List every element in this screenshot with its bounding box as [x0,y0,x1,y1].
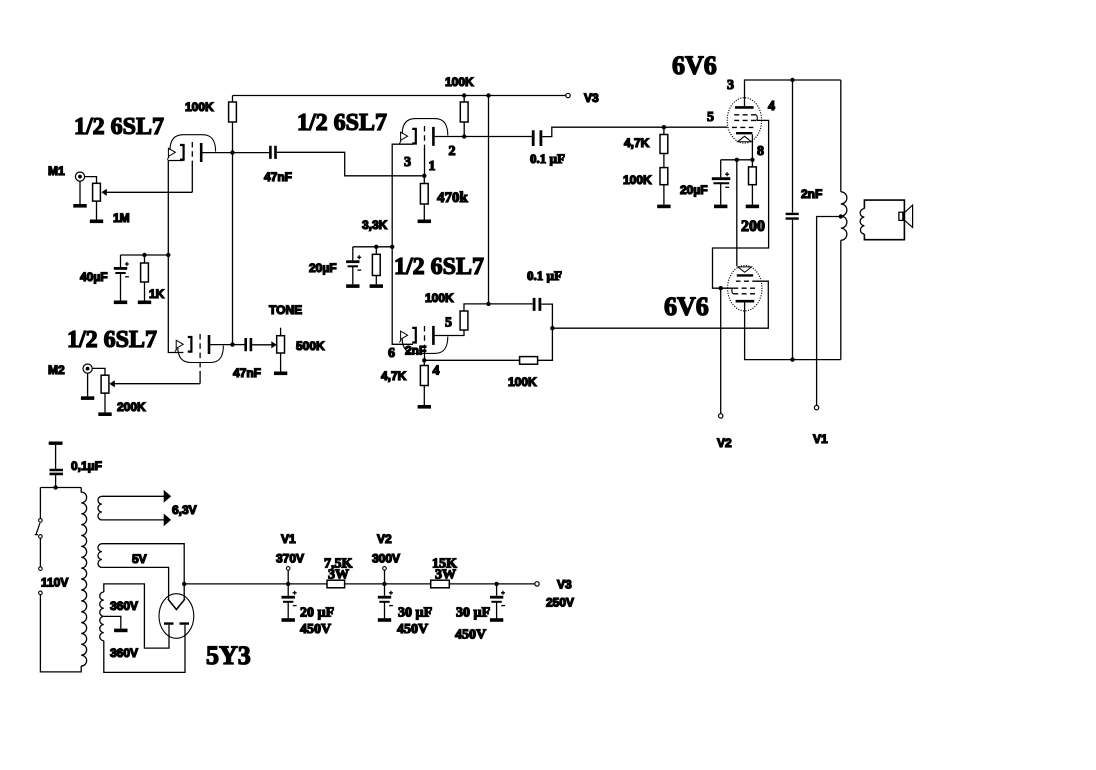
resistor 1K [141,263,149,282]
wire filament right arm [183,584,185,600]
svg-text:1/2 6SL7: 1/2 6SL7 [67,327,157,353]
svg-text:47nF: 47nF [264,170,292,184]
node 100K plate load V2a top [462,93,466,97]
wire 100K bottom / plate bus [232,122,234,345]
wire V2a plate lead [435,136,465,138]
node V1b plate [230,342,234,346]
wire 4,7K top lead [423,360,425,365]
wire 0,1uF bottom stem [55,475,57,487]
svg-text:450V: 450V [455,628,486,643]
wire V2 rail down [720,288,722,414]
resistor 4,7K (divider) [420,366,428,386]
grid line V1a [191,142,193,166]
svg-text:20µF: 20µF [680,183,708,197]
switch contact upper [39,519,43,523]
ground (M2 jack) [81,397,94,399]
wire 1K top lead [144,255,146,263]
resistor 200 cathode [749,167,757,185]
resistor 100K grid leak (upper 6V6) [660,168,668,185]
svg-text:V1: V1 [813,432,828,446]
ground (100K grid leak) [657,205,670,207]
svg-text:4,7K: 4,7K [381,369,407,383]
wire V1b plate lead [210,344,233,346]
node 2nF tap [790,78,794,82]
potentiometer 500K tone [277,336,285,353]
terminal 110V lower [39,591,43,595]
capacitor 2nF line top [792,80,794,213]
svg-text:1: 1 [429,159,436,174]
node rail to dropper line [486,93,490,97]
wire switch to plug [39,538,41,567]
capacitor 2nF line bottom [792,220,794,360]
wire 20uF top lead [352,247,354,260]
svg-text:5V: 5V [132,552,147,566]
wire 6V6 upper cathode lead [751,135,753,160]
wire switch feed [39,488,41,519]
wire V1a cathode hook [168,161,183,256]
wire 1M to ground [96,201,98,219]
node cathode bus / lower 6V6 [735,158,739,162]
wire V2b cathode hook [392,247,413,344]
wire V1b grid to 200K wiper [113,383,201,385]
resistor 3,3K [372,254,380,275]
pentode 6V6 upper [727,98,761,143]
wire 40uF top lead [120,255,122,267]
node rectifier output [182,582,186,586]
terminal 110V upper [39,567,43,571]
wire 40uF bottom lead [120,273,122,301]
wire 3,3K bottom lead [375,276,377,285]
svg-text:3: 3 [404,155,411,170]
svg-text:6: 6 [388,346,395,361]
wire M1 jack ground lead [79,181,81,204]
tube 5Y3 plates [164,622,189,624]
wire V1b cathode hook [168,255,183,353]
wire lower 6V6 cathode to bus [736,160,738,266]
transformer OT primary line [840,80,842,192]
capacitor 0,1uF line cap top bar [49,442,63,445]
wire V1a plate lead [202,152,233,154]
terminal V2 (open circle) [719,414,723,418]
svg-text:1/2 6SL7: 1/2 6SL7 [297,110,387,136]
capacitor 0.1uF (lower coupling) [534,298,540,311]
tube 5Y3 envelope [159,594,194,639]
svg-text:6V6: 6V6 [664,292,709,321]
arrow 6,3V bottom [164,514,171,527]
node cathode/1K junction [166,253,170,257]
wire 6,3V bottom lead [102,519,164,521]
switch contact lower [39,535,43,539]
input jack M1 [75,172,84,181]
svg-text:200K: 200K [117,400,146,414]
inductor OT primary winding [841,192,847,240]
node 30uF-2 rail [494,582,498,586]
svg-text:450V: 450V [397,622,428,637]
svg-text:40µF: 40µF [80,270,108,284]
svg-text:TONE: TONE [269,303,302,317]
wire V1 stub [287,570,289,584]
wire center tap to V1 [817,217,841,406]
resistor 4,7K grid stopper [660,135,668,154]
resistor 100K (V2b plate load) [460,311,468,330]
wire cathode bus [721,159,753,161]
grid line V2a [424,126,426,150]
node V1 rail [286,582,290,586]
svg-text:3W: 3W [328,568,349,583]
wire M1 jack to pot [85,177,97,184]
arrow 6,3V top [164,490,171,503]
ground (40uF) [114,301,127,303]
svg-text:450V: 450V [300,622,331,637]
pentode 6V6 lower (rotated) [728,266,762,311]
wire 5V bottom lead [102,567,169,599]
transformer 5V winding [98,544,102,568]
node cathode junction right [750,158,754,162]
svg-text:6,3V: 6,3V [172,503,197,517]
wire HV center tap [104,616,121,628]
grid line V1b [199,334,201,372]
wire 30uF-2 bottom lead [496,602,498,618]
triode V2b 1/2 6SL7 (phase inverter, dome below) [399,326,447,354]
capacitor 47nF (tone coupling) [246,338,251,351]
wire mains bottom [40,595,81,672]
svg-text:1M: 1M [113,211,130,225]
ground (30uF-2) [490,619,503,621]
svg-text:2nF: 2nF [405,344,426,358]
svg-text:500K: 500K [296,339,325,353]
grid line V2b [424,326,426,352]
svg-text:1/2 6SL7: 1/2 6SL7 [74,114,164,140]
wire HV top to left plate [104,584,169,648]
svg-text:V3: V3 [557,578,572,592]
capacitor 30uF 450V (2) [490,591,505,606]
svg-text:M1: M1 [48,164,65,178]
svg-text:5Y3: 5Y3 [206,641,251,670]
wire M2 jack to pot [92,368,105,375]
ground (500K) [274,372,287,374]
svg-text:0.1 µF: 0.1 µF [527,268,562,283]
wire 30uF-1 bottom lead [384,602,386,618]
wire 470k top lead [423,176,425,184]
wire 20uF top lead [720,160,722,178]
ground (20uF) [346,285,359,287]
wire 47nF to tone pot [252,344,272,346]
wire cathode node to 20uF [353,246,392,248]
speaker driver [899,212,905,220]
terminal V3 (open circle) [566,93,570,97]
node V2a grid / 470k [422,174,426,178]
svg-text:2: 2 [449,144,456,159]
ground (1K) [138,301,151,303]
wire 5V top lead to B+ node [102,544,184,584]
wire 100K top to 0.1uF lower [464,304,533,311]
wire 6V6 screen (pin 4) path [713,120,769,288]
capacitor 2nF [786,214,799,219]
wire 200K to ground [104,393,106,412]
ground (M1 jack) [73,205,86,207]
svg-text:V2: V2 [377,532,392,546]
ground (3,3K) [370,285,383,287]
wire 30uF-2 top lead [496,584,498,596]
capacitor 20uF (6V6 cathode) [712,177,731,180]
tube 5Y3 filament [168,599,185,610]
capacitor 40uF electrolytic [114,262,129,277]
svg-text:30 µF: 30 µF [456,606,490,621]
wire V1a grid to 1M wiper [105,191,193,193]
wire junction to 6V6 grid (lower) [552,281,768,328]
wire V3 rail top [233,95,566,97]
node V2b grid divider [422,358,426,362]
svg-text:V1: V1 [281,532,296,546]
triode V1a 1/2 6SL7 [167,135,215,162]
wire 4,7K top lead [663,127,665,134]
svg-text:300V: 300V [372,552,400,566]
wire plate to 0.1uF [464,136,532,138]
wire 30uF-1 top lead [384,584,386,596]
potentiometer 200K [101,375,109,393]
wire 20uF psu bottom lead [287,602,289,618]
switch blade [35,523,40,535]
svg-text:470k: 470k [437,190,469,206]
terminal V3 psu [535,582,539,586]
wire lower 6V6 plate lead [745,301,841,359]
ground (200K) [98,413,111,415]
transformer primary winding [81,488,86,667]
node 1K top [142,253,146,257]
node 2nF bottom [790,357,794,361]
wire HV bottom to right plate [104,625,185,673]
wire V2 stub [384,570,386,584]
capacitor 30uF 450V (1) [378,591,393,606]
resistor 470k grid leak [420,184,428,205]
wire tone pot top stub [280,328,282,336]
resistor 100K plate load V1a [229,102,237,122]
svg-text:100K: 100K [623,173,652,187]
resistor 100K plate load V2a [460,102,468,122]
triode V2a 1/2 6SL7 [399,119,447,146]
svg-text:360V: 360V [110,646,138,660]
wire mains top [40,487,81,489]
svg-text:0.1 µF: 0.1 µF [530,151,565,166]
svg-text:100K: 100K [445,75,474,89]
node 3,3K resistor top [374,245,378,249]
svg-text:250V: 250V [546,596,574,610]
svg-text:30 µF: 30 µF [398,606,432,621]
capacitor 20uF 450V [282,591,297,606]
wire 6V6 plate (pin 3) to OT [745,80,841,107]
svg-text:110V: 110V [41,576,68,590]
ground (20uF psu) [282,619,295,621]
wire 1K bottom lead [144,282,146,301]
svg-text:20µF: 20µF [309,261,337,275]
node V1a plate [230,150,234,154]
speaker horn [905,205,913,227]
svg-text:5: 5 [707,110,714,125]
wire 20uF bottom lead [720,183,722,204]
svg-text:2nF: 2nF [801,187,822,201]
svg-text:V3: V3 [584,91,599,105]
wire 4,7K bottom lead [423,386,425,406]
wire cathode node to 40uF [121,254,169,256]
svg-text:6V6: 6V6 [672,51,717,80]
resistor 15K 3W [431,580,450,588]
terminal V1 (open circle) [814,405,818,409]
wire lower 6V6 grid connector [756,280,759,282]
speaker box [864,200,904,240]
capacitor 20uF cathode bypass [346,255,361,270]
node screen / V2 rail [719,286,723,290]
node V2a plate [462,134,466,138]
ground (470k) [418,220,431,222]
svg-text:370V: 370V [276,552,304,566]
svg-text:47nF: 47nF [233,366,261,380]
svg-text:360V: 360V [110,599,138,613]
svg-text:0,1µF: 0,1µF [71,459,102,473]
svg-text:3W: 3W [435,568,456,583]
wire 6,3V top lead [102,495,164,497]
svg-text:4: 4 [433,364,440,379]
wire tone pot to ground [280,353,282,372]
node OT center tap [839,214,843,218]
resistor 7,5K 3W [327,580,345,588]
svg-text:20 µF: 20 µF [300,606,334,621]
wire 47nF to V1b grid node [277,152,425,176]
wiper arrow 1M [101,189,106,196]
wire B+ rail [184,583,535,585]
wiper arrow TONE [271,341,276,348]
wire plate node to 47nF (ch2) [233,344,245,346]
svg-text:5: 5 [445,316,452,331]
svg-text:1K: 1K [149,287,165,301]
wire 20uF bottom lead [352,266,354,284]
capacitor 0.1uF (upper coupling) [533,130,541,146]
input jack M2 [83,364,92,373]
wire V2b plate lead [433,330,464,336]
svg-text:3,3K: 3,3K [362,218,388,232]
node lower coupling junction [550,326,554,330]
svg-text:8: 8 [757,144,764,159]
triode V1b 1/2 6SL7 (second input, dome below) [175,335,223,363]
wire OT primary bottom [840,240,842,359]
wire M2 jack ground lead [87,373,89,396]
ground (4,7K divider) [418,406,431,408]
svg-text:V2: V2 [717,436,732,450]
svg-text:M2: M2 [48,363,65,377]
svg-text:100K: 100K [508,375,537,389]
wire 0.1uF to 4,7K node [542,127,727,136]
ground (1M) [90,220,103,222]
wire 4,7K to 100K [663,154,665,168]
wire 3,3K top lead [375,247,377,255]
svg-text:100K: 100K [425,291,454,305]
wire junction down to 100K feedback [538,328,553,360]
svg-text:3: 3 [727,78,734,93]
svg-text:200: 200 [741,218,765,235]
ground (20uF 6V6) [714,205,727,207]
wire 0,1uF top stem [55,445,57,469]
svg-text:1/2 6SL7: 1/2 6SL7 [394,254,484,280]
wire 470k bottom lead [423,204,425,220]
wire 100K feedback to grid node [424,359,519,361]
wire V2a cathode hook [392,144,413,247]
wire 100K V2a top lead [463,96,465,103]
ground (HV center tap) [114,629,127,631]
svg-text:4,7K: 4,7K [624,136,650,150]
capacitor 47nF (ch1 coupling) [270,146,275,159]
transformer 6,3V winding [98,496,102,520]
node mains top [53,485,57,489]
resistor 100K feedback (horizontal) [520,357,538,365]
node V2 rail [382,582,386,586]
ground (30uF-1) [378,619,391,621]
capacitor 0,1uF [50,470,64,474]
node 4,7K / grid wire [662,125,666,129]
transformer HV winding 360V+360V [100,592,104,641]
wiper arrow 200K [109,380,114,387]
wire 100K bottom lead [663,185,665,205]
terminal V2 psu [383,567,387,571]
wire 0.1uF lower to junction [541,304,552,328]
svg-text:4: 4 [768,99,775,114]
node dropper joins plate wire [486,302,490,306]
inductor OT secondary winding [860,209,864,235]
wire 200 bottom lead [751,185,753,205]
wire 20uF psu top lead [287,584,289,596]
node 3.3K top [390,245,394,249]
wire dropper vertical (V3 to lower stage) [488,96,490,304]
wire 200 top lead [751,160,753,167]
wire 100K top to V3 rail [232,96,234,103]
potentiometer 1M [93,183,101,201]
terminal V1 psu [286,567,290,571]
wire plate node to 47nF [233,152,270,154]
svg-text:100K: 100K [185,100,214,114]
wire 100K V2a bottom lead [463,122,465,137]
ground (200) [746,205,759,207]
